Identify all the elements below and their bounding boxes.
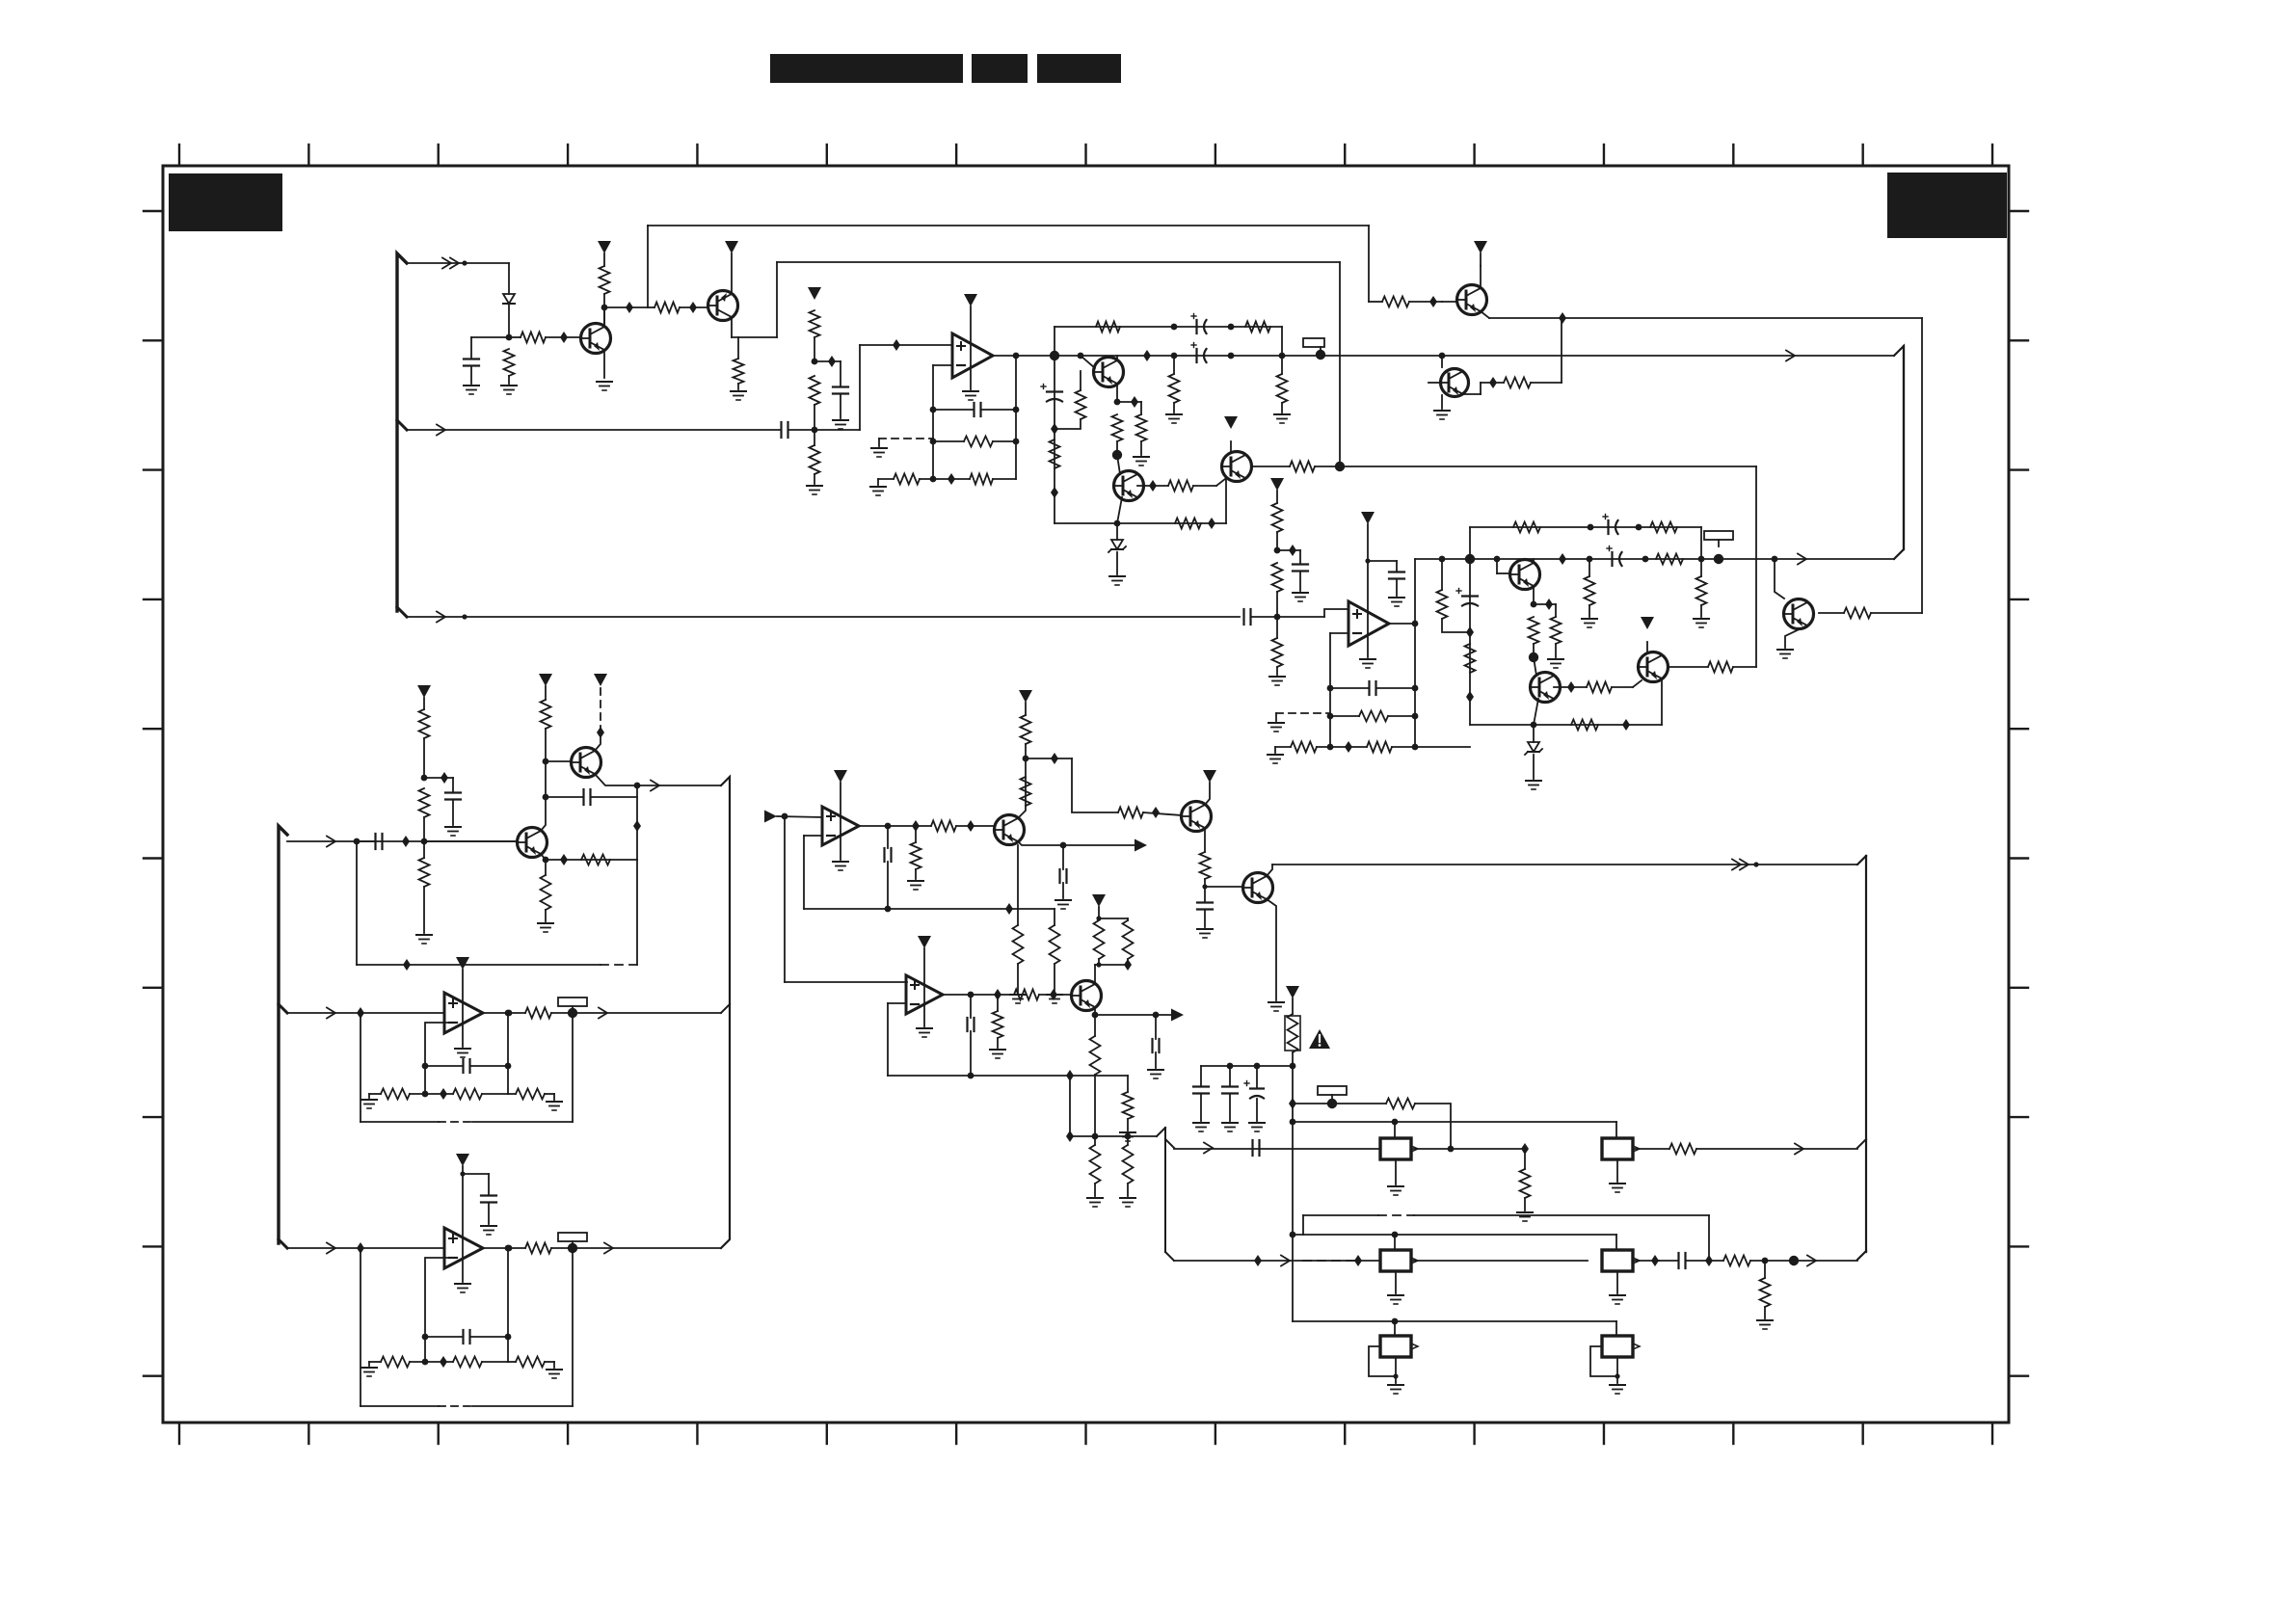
fb row U5 — [804, 903, 1055, 915]
resistor R34 — [1656, 554, 1683, 565]
transistor Q14 — [995, 815, 1025, 845]
wire — [509, 336, 581, 338]
wire Q13 base — [546, 760, 571, 762]
wire — [1819, 612, 1922, 614]
transistor Q5 — [1222, 452, 1252, 482]
wire — [1415, 1104, 1451, 1148]
wire DL5 gnd — [1393, 1357, 1398, 1383]
wire — [1143, 807, 1182, 818]
wire — [814, 430, 815, 484]
wire U2 out — [1389, 621, 1418, 627]
resistor R65v — [1200, 852, 1211, 879]
ground — [963, 391, 978, 400]
ground — [455, 1284, 470, 1292]
resistor R76 — [1669, 1144, 1696, 1155]
capacitor C13 (pol) — [1607, 546, 1622, 567]
wire — [1764, 1261, 1766, 1318]
power arrow +V — [808, 287, 821, 300]
wire — [470, 337, 472, 359]
wire Q4 base right — [1137, 480, 1168, 492]
capacitor C6 (pol) — [1191, 343, 1207, 363]
resistor R69v — [1094, 920, 1105, 959]
wire run mid — [777, 261, 1340, 263]
power arrow +V — [1092, 894, 1106, 907]
wire Q7 emitter — [1481, 311, 1489, 318]
wire — [1615, 1321, 1617, 1336]
wire Q11 top — [1646, 642, 1648, 652]
transistor Q16 — [1243, 873, 1273, 903]
wire — [508, 1094, 554, 1100]
wire — [505, 1010, 512, 1094]
wire — [1659, 1255, 1723, 1266]
node — [1588, 524, 1594, 531]
wire — [1615, 1235, 1617, 1250]
wire — [1293, 1103, 1386, 1104]
ground — [1166, 414, 1182, 423]
wire — [1127, 959, 1129, 965]
wire DL3 gnd — [1395, 1271, 1397, 1293]
wire — [423, 841, 425, 933]
arrow out1 — [1063, 839, 1147, 852]
ground — [1610, 1295, 1625, 1304]
resistor R60v — [1021, 777, 1031, 806]
capacitor C9 — [1293, 565, 1308, 572]
capacitor C22 — [1060, 869, 1067, 883]
transistor Q8 — [1784, 599, 1814, 629]
resistor R64v — [1050, 925, 1060, 964]
connector chevron J1 — [442, 258, 467, 269]
ground — [1526, 781, 1541, 789]
ground — [1694, 619, 1709, 627]
wire — [471, 336, 509, 338]
capacitor C24 — [968, 1018, 974, 1031]
wire — [421, 698, 428, 781]
resistor R58v — [911, 842, 921, 869]
wire dashed — [1303, 1260, 1354, 1262]
wire U3 gnd stem — [462, 1024, 464, 1047]
title block bar 2 — [972, 54, 1028, 83]
ground — [1193, 1123, 1209, 1131]
wire — [1439, 556, 1446, 590]
wire — [1095, 959, 1132, 971]
wire — [1092, 1015, 1099, 1139]
ground — [445, 827, 461, 836]
wire — [1299, 550, 1301, 591]
arrow — [327, 837, 335, 847]
ground — [1360, 659, 1375, 668]
power arrow +V — [456, 1154, 469, 1166]
resistor R13 — [1096, 322, 1120, 333]
ground — [1197, 929, 1213, 938]
node — [1051, 423, 1058, 498]
supply bus node B2 — [279, 826, 287, 1248]
wire — [970, 995, 972, 1076]
wire — [1555, 604, 1557, 657]
wire T stem — [1497, 559, 1509, 573]
rail 1001 — [357, 959, 601, 971]
rail 1295 — [287, 1247, 444, 1249]
resistor R21v — [1050, 439, 1060, 468]
ground — [1087, 1198, 1103, 1207]
capacitor C21 — [885, 848, 892, 862]
wire — [1094, 1136, 1096, 1196]
arrow — [651, 781, 659, 791]
ground — [361, 1368, 377, 1376]
resistor R16v — [1277, 374, 1288, 403]
power arrow +V — [725, 241, 738, 253]
arrow — [437, 612, 467, 623]
wire — [422, 1334, 512, 1341]
ground — [1293, 593, 1308, 601]
ground — [1268, 755, 1283, 763]
wire — [1116, 523, 1118, 574]
wire — [1127, 1119, 1129, 1131]
op-amp U3 — [444, 993, 483, 1033]
wire Q4 collector — [1117, 455, 1120, 474]
wire — [956, 820, 994, 832]
wire Q15 collector — [1205, 783, 1210, 805]
node — [1622, 719, 1630, 731]
wire — [424, 772, 453, 784]
wire — [1411, 1143, 1529, 1155]
ground — [1055, 900, 1071, 909]
capacitor C1 — [464, 359, 479, 366]
transistor Q11 — [1639, 652, 1669, 682]
wire Q13 collector — [595, 727, 604, 751]
wire — [422, 1063, 512, 1070]
transistor Q6 — [1441, 369, 1469, 397]
wire — [545, 860, 547, 921]
ground — [731, 391, 746, 400]
capacitor C23 — [1197, 903, 1213, 910]
wire Q11 right — [1668, 666, 1708, 668]
wire top row — [1055, 326, 1282, 328]
ground — [1222, 1123, 1238, 1131]
wire — [1039, 989, 1071, 1000]
resistor R36v — [1696, 576, 1707, 605]
wire dashed gnd stub — [1276, 713, 1330, 721]
rail 897 — [1272, 864, 1857, 865]
node — [1466, 626, 1474, 703]
ground — [1388, 1186, 1403, 1195]
wire U4 gnd stem — [462, 1259, 464, 1282]
power arrow +V — [1019, 690, 1032, 703]
test point TP1 — [1303, 338, 1325, 359]
wire dashed gnd stub — [879, 439, 933, 446]
wire U5 out — [859, 820, 931, 832]
arrow — [437, 425, 445, 436]
node — [1208, 518, 1215, 529]
wire — [1072, 758, 1118, 812]
wire cap row — [1201, 1063, 1293, 1070]
wire — [1281, 356, 1283, 412]
wire Q17 collector — [1094, 965, 1096, 984]
resistor R55 — [381, 1357, 410, 1368]
ground — [1610, 1184, 1625, 1192]
capacitor C8 — [1244, 609, 1251, 625]
wire — [1112, 441, 1122, 460]
op-amp U4 — [444, 1228, 483, 1268]
wire Q3 base stem — [1081, 356, 1095, 368]
node — [1078, 350, 1178, 361]
wire aux rail — [407, 429, 781, 431]
capacitor C14 (pol) — [1456, 589, 1478, 606]
resistor R26v — [1272, 503, 1283, 532]
row1 top wire — [1293, 1119, 1616, 1126]
wire Q1 collector — [601, 305, 608, 327]
wire — [1251, 614, 1324, 621]
wire — [1117, 396, 1141, 408]
resistor R10 — [964, 437, 993, 447]
wire — [1633, 1148, 1669, 1150]
fusible resistor RF1 — [1285, 1014, 1300, 1052]
wire minus stem — [425, 1258, 449, 1362]
resistor R75v — [1520, 1169, 1531, 1198]
arrow — [1798, 554, 1806, 565]
ground — [1610, 1385, 1625, 1394]
wire — [1533, 725, 1535, 779]
resistor R45v — [419, 788, 430, 817]
arrow out2 — [1156, 1009, 1184, 1022]
capacitor C17 — [584, 789, 591, 805]
capacitor C10 — [1389, 572, 1404, 579]
wire U5 +V stem — [840, 783, 841, 837]
resistor R59 — [931, 821, 956, 832]
resistor R7 — [810, 310, 820, 337]
resistor R17v — [1136, 414, 1147, 441]
wire dashed — [601, 964, 637, 966]
wire — [814, 360, 841, 362]
wire U3 +V stem — [462, 970, 464, 1024]
capacitor C3 — [782, 422, 788, 438]
wire — [997, 995, 999, 1048]
power arrow +V — [594, 674, 607, 686]
node — [1489, 377, 1497, 388]
resistor R57 — [516, 1357, 545, 1368]
wire Q5 top — [1230, 441, 1232, 452]
wire — [1017, 909, 1019, 993]
wire DL4 gnd — [1616, 1271, 1618, 1293]
main rail U1 out — [1055, 355, 1894, 357]
wire — [1276, 592, 1278, 617]
power arrow +V — [417, 685, 431, 698]
wire — [470, 366, 472, 384]
resistor R43 — [1571, 720, 1598, 731]
ground — [455, 1049, 470, 1057]
wire — [1589, 559, 1590, 617]
wire Q3 collector — [1116, 356, 1118, 360]
fb row U6 — [888, 1070, 1128, 1081]
wire Q12 collector — [541, 758, 548, 831]
wire riser 1525 — [1465, 527, 1475, 564]
wire Q8 base stem — [1775, 559, 1784, 599]
wire top run — [648, 225, 1369, 226]
resistor R74 — [1386, 1099, 1415, 1109]
wire minus — [888, 1003, 906, 1076]
ground — [1269, 677, 1285, 685]
wire minus — [804, 836, 822, 909]
wire — [1173, 356, 1175, 412]
wire — [1327, 713, 1419, 720]
power arrow +V — [1474, 241, 1487, 253]
ground — [990, 1050, 1005, 1058]
ground — [833, 862, 848, 870]
arrow — [327, 1243, 335, 1254]
resistor R66v — [993, 1011, 1003, 1038]
ground — [501, 386, 517, 394]
ground — [1388, 1385, 1403, 1394]
ground — [481, 1226, 496, 1235]
transistor Q9 — [1510, 560, 1540, 590]
resistor R63v — [1013, 925, 1024, 964]
ground — [1134, 457, 1149, 466]
capacitor C30 — [1679, 1253, 1686, 1268]
resistor R46v — [419, 858, 430, 887]
transistor Q10 — [1531, 673, 1561, 703]
resistor R44v — [419, 709, 430, 738]
power arrow +V — [964, 294, 977, 306]
resistor R37v — [1465, 644, 1476, 673]
wire minus stem — [425, 1023, 449, 1094]
resistor R51 — [381, 1089, 410, 1100]
resistor R24 — [1504, 378, 1531, 388]
power arrow +V — [1286, 986, 1299, 998]
wire — [1062, 845, 1064, 898]
wire — [1096, 907, 1128, 921]
corner label box top-left — [169, 173, 282, 231]
arrow — [1795, 1144, 1803, 1155]
wire — [777, 816, 822, 817]
wire U2 fb left — [1330, 633, 1348, 747]
wire U6 +V stem — [923, 948, 925, 1005]
rail 1051 — [287, 1012, 444, 1014]
power arrow +V — [918, 936, 931, 948]
wire Q5 emitter — [1225, 478, 1227, 523]
wire U4 out — [483, 1245, 525, 1252]
wire — [1700, 559, 1702, 617]
resistor R61v — [1021, 715, 1031, 744]
wire — [1615, 1122, 1617, 1138]
ground — [538, 923, 553, 932]
row 892 — [546, 854, 637, 865]
wire — [1054, 909, 1055, 993]
transistor Q3 — [1094, 358, 1124, 387]
ground — [1010, 995, 1026, 1003]
rail 643 run — [407, 616, 1240, 618]
wire Q2 emitter — [731, 253, 733, 294]
wire top row 547 — [1470, 526, 1701, 528]
wire — [545, 686, 547, 761]
title block bar 1 — [770, 54, 963, 83]
rail row1 — [1174, 1148, 1380, 1150]
wire — [1324, 609, 1348, 617]
corner label box top-right — [1887, 173, 2007, 238]
wire — [1155, 1015, 1157, 1068]
wire Q10 collector — [1534, 657, 1536, 676]
wire — [1315, 462, 1345, 471]
wire U1 gnd stem — [970, 366, 972, 389]
wire — [1534, 599, 1556, 610]
resistor R19 — [1168, 481, 1193, 492]
wire — [1256, 1066, 1258, 1121]
wire — [840, 361, 841, 418]
bus fold F1 — [1894, 346, 1904, 559]
wire — [930, 407, 1020, 413]
wire — [1275, 747, 1291, 753]
power arrow +V — [539, 674, 552, 686]
title block bar 3 — [1037, 54, 1121, 83]
node — [1494, 553, 1593, 565]
power arrow +V — [834, 770, 847, 783]
resistor R50 — [525, 1008, 551, 1019]
resistor R2 — [521, 333, 546, 343]
wire — [1193, 479, 1225, 486]
wire — [1394, 1321, 1396, 1336]
capacitor C26 — [1193, 1087, 1209, 1094]
wire — [460, 1171, 489, 1176]
wire U3 out — [483, 1010, 525, 1017]
wire U6 gnd stem — [923, 1005, 925, 1026]
wire — [1696, 1148, 1857, 1150]
resistor R35v — [1585, 576, 1595, 605]
row2 top wire — [1293, 1232, 1616, 1238]
wire riser c2 — [776, 262, 778, 337]
wire U5 gnd stem — [840, 837, 841, 860]
bottom rail blk2b — [1470, 724, 1662, 726]
power arrow +V — [1361, 512, 1375, 524]
ground — [1517, 1212, 1533, 1221]
wire Q12 base — [424, 840, 517, 842]
wire Q3 emitter — [1114, 384, 1121, 405]
wire Q11 emitter — [1661, 678, 1663, 725]
power arrow +V — [1224, 416, 1238, 429]
wire — [1368, 226, 1370, 302]
wire dashed supply — [600, 688, 601, 732]
wire Q9 emitter — [1531, 586, 1537, 607]
input arrow node — [764, 811, 788, 823]
wire — [369, 1362, 381, 1366]
resistor R41 — [1587, 682, 1612, 693]
wire — [878, 479, 894, 485]
test point TP2 — [1704, 531, 1733, 564]
ground — [547, 1370, 562, 1378]
ground — [871, 448, 887, 457]
wire — [505, 1245, 512, 1362]
op-amp U2 — [1348, 601, 1389, 646]
resistor R72v — [1090, 1145, 1101, 1184]
resistor R33 — [1650, 522, 1677, 533]
frame tick marks — [144, 145, 2028, 1444]
power arrow +V — [1641, 617, 1654, 629]
wire riser U2 out — [1414, 559, 1416, 747]
wire — [993, 478, 1016, 480]
capacitor C12 (pol) — [1603, 515, 1618, 535]
wire — [1277, 545, 1300, 556]
wire Q14 emitter — [1018, 841, 1066, 848]
ground — [1047, 995, 1062, 1003]
resistor R22 — [1175, 519, 1201, 529]
resistor R67 — [1014, 990, 1039, 1000]
wire Q4 emitter — [1114, 497, 1122, 526]
wire — [1524, 1148, 1526, 1211]
wire — [1369, 301, 1442, 303]
op-amp U6 — [906, 975, 943, 1014]
wire Q5 right — [1251, 466, 1290, 467]
wire Q16 collector — [1267, 865, 1272, 876]
wire fb right — [1015, 356, 1017, 479]
wire Q13 emitter — [595, 774, 640, 788]
wire — [1290, 1052, 1296, 1069]
